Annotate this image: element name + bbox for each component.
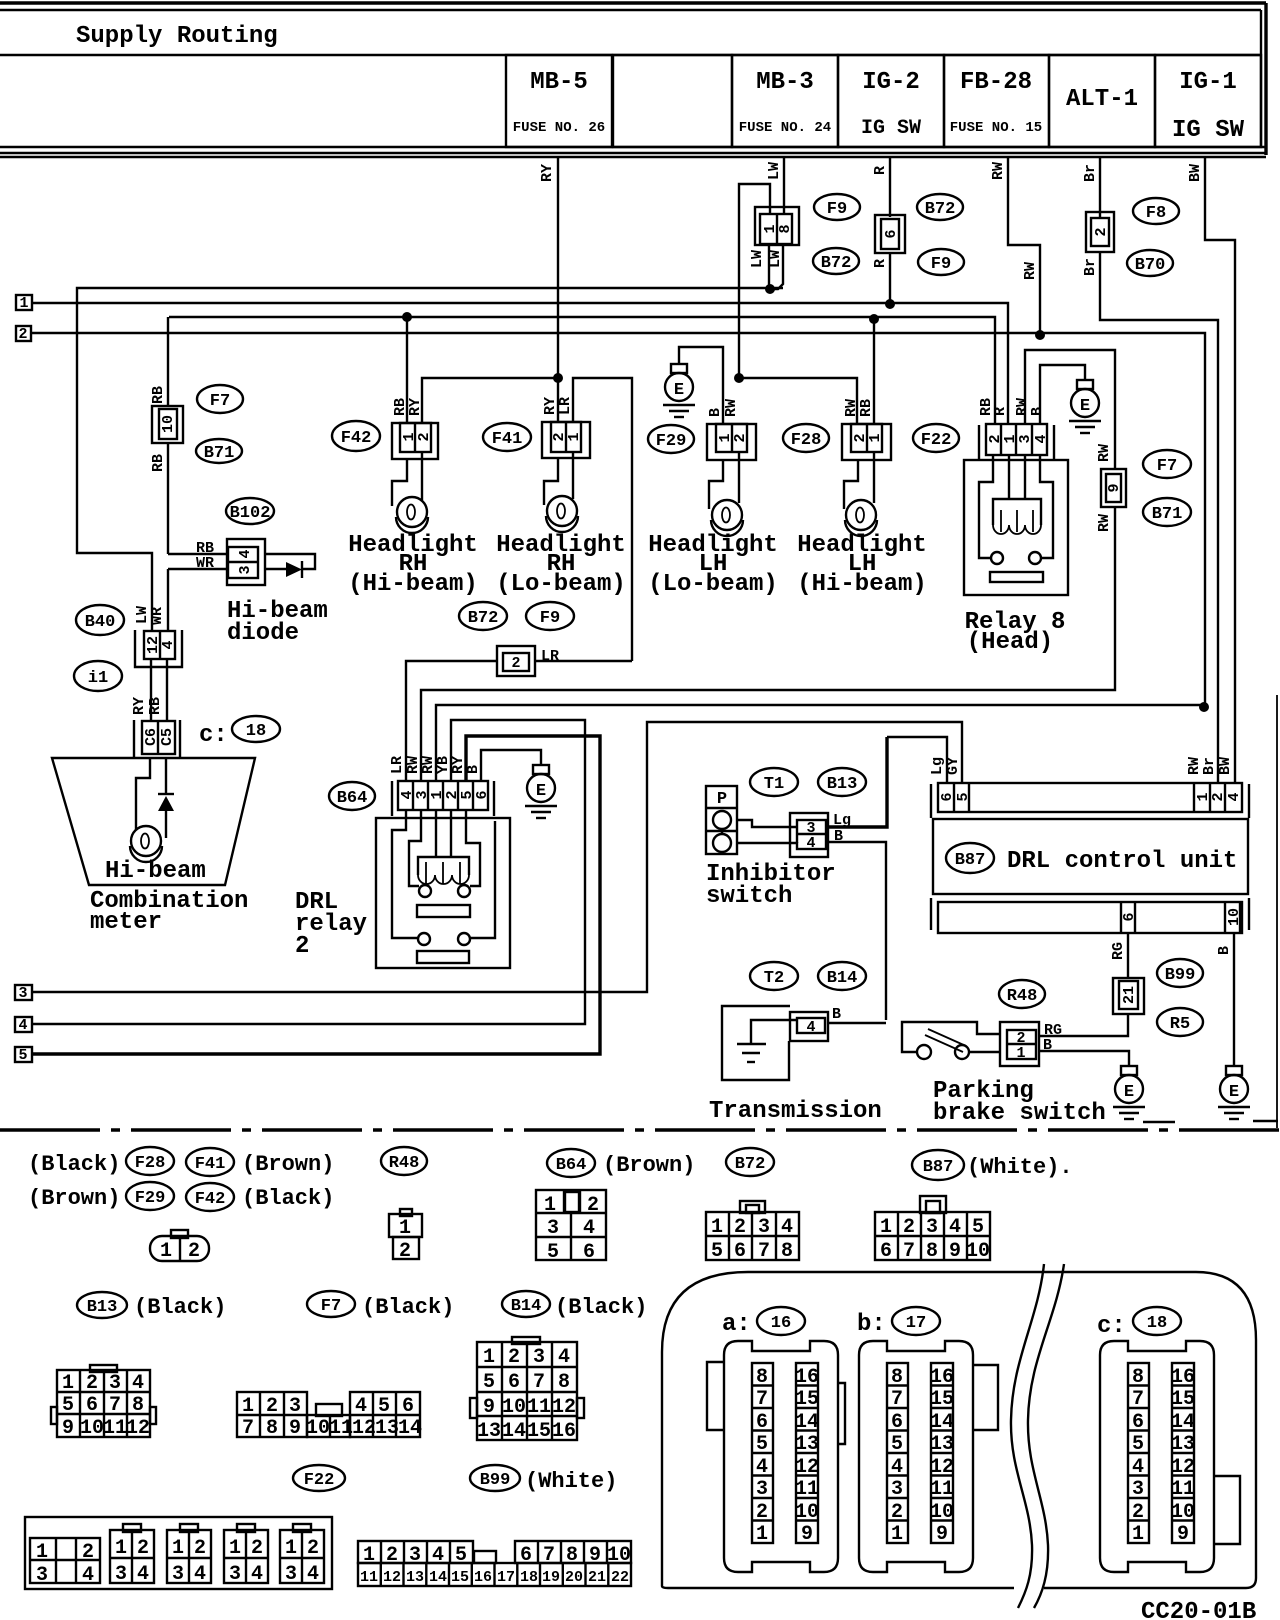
wire bus 4 : YB from DRL relay pin 2: [32, 720, 585, 1024]
diode D hi-beam: [265, 554, 315, 569]
svg-text:B: B: [465, 765, 482, 774]
wire RY to F41 pin2: [557, 378, 559, 422]
supply box IG-2: [838, 55, 944, 147]
ellipse F9 mid: [526, 602, 574, 630]
svg-text:1: 1: [229, 1537, 241, 1560]
svg-text:2: 2: [295, 933, 309, 960]
svg-text:11: 11: [103, 1417, 127, 1440]
svg-text:(White): (White): [525, 1469, 617, 1494]
wires F41 to lamp: [544, 452, 573, 505]
svg-text:4: 4: [160, 640, 177, 649]
svg-text:16: 16: [771, 1314, 791, 1333]
svg-text:12: 12: [126, 1417, 150, 1440]
drl relay internal pin1 pin2 to coil: [436, 810, 451, 857]
svg-text:22: 22: [611, 1569, 629, 1586]
svg-text:8: 8: [777, 224, 794, 233]
svg-text:1: 1: [285, 1537, 297, 1560]
svg-text:F22: F22: [921, 431, 952, 450]
ellipse F7 right: [1143, 450, 1191, 478]
svg-text:F42: F42: [341, 429, 372, 448]
svg-text:4: 4: [82, 1564, 94, 1587]
svg-text:(Black): (Black): [28, 1152, 120, 1177]
headlight LH hi lamp: [845, 500, 877, 536]
joint connector ALT-1 Br: [1086, 212, 1114, 252]
socket c pin column right: [1171, 1363, 1195, 1546]
ellipse T1: [750, 768, 798, 796]
svg-text:1: 1: [756, 1523, 768, 1546]
svg-text:11: 11: [360, 1569, 378, 1586]
ellipse B72 lower: [813, 248, 859, 274]
svg-text:1: 1: [880, 1216, 892, 1239]
socket c right bump: [1214, 1476, 1240, 1544]
svg-text:10: 10: [1226, 908, 1243, 926]
svg-text:1: 1: [115, 1537, 127, 1560]
chain separator line: [0, 1128, 1280, 1131]
junction dot F42 RB: [402, 312, 412, 322]
svg-text:meter: meter: [90, 909, 162, 936]
svg-text:5: 5: [891, 1433, 903, 1456]
wire B64 pin6 to ground: [481, 750, 541, 781]
wire RB B40 to meter: [166, 659, 168, 721]
svg-text:8: 8: [926, 1240, 938, 1263]
wire bus 2 : RW feed to DRL unit pin 1: [31, 333, 1205, 707]
supply box MB-3: [732, 55, 838, 147]
socket c pin column left: [1128, 1363, 1149, 1546]
ellipse F7: [197, 385, 243, 413]
connector F42: [392, 423, 438, 459]
wire RY B40 to meter: [150, 659, 152, 721]
page edge artifact line: [1276, 695, 1278, 1128]
svg-text:Supply Routing: Supply Routing: [76, 23, 278, 50]
svg-text:18: 18: [1147, 1314, 1167, 1333]
drl relay lower contact left: [418, 933, 430, 945]
joint connector RW 9 (F7/B71): [1101, 469, 1126, 507]
svg-text:F7: F7: [321, 1297, 341, 1316]
junction dot RW DRL unit: [1199, 702, 1209, 712]
svg-text:4: 4: [1033, 434, 1050, 443]
wire RG from DRL unit pin6: [1127, 933, 1129, 978]
junction dot LW: [765, 284, 775, 294]
ellipse B14 pinout: [502, 1291, 550, 1317]
node square 3: [15, 985, 32, 1000]
svg-text:2: 2: [508, 1346, 520, 1369]
svg-text:3: 3: [115, 1563, 127, 1586]
svg-text:F7: F7: [1157, 457, 1177, 476]
wire meter lamp left: [136, 758, 150, 830]
ellipse B64 pinout: [547, 1149, 595, 1177]
svg-text:3: 3: [229, 1563, 241, 1586]
frame right inner border: [1260, 10, 1262, 148]
combination meter trapezoid: [52, 758, 255, 885]
svg-text:CC20-01B: CC20-01B: [1141, 1599, 1256, 1620]
svg-text:1: 1: [62, 1372, 74, 1395]
junction dot RY: [553, 373, 563, 383]
drl relay internal pin3 to upper contact: [409, 810, 421, 886]
svg-text:2: 2: [511, 655, 520, 672]
svg-text:11: 11: [1171, 1478, 1195, 1501]
ellipse 17: [892, 1307, 940, 1335]
wire RW 9 down to DRL relay pin3: [421, 507, 1115, 781]
headlight RH lo lamp: [546, 496, 578, 532]
ground E parking brake: [1113, 1066, 1145, 1119]
svg-text:9: 9: [62, 1417, 74, 1440]
header bottom double line: [0, 152, 1266, 154]
svg-text:9: 9: [483, 1396, 495, 1419]
ellipse F28: [783, 424, 829, 452]
svg-text:8: 8: [1132, 1366, 1144, 1389]
svg-text:8: 8: [891, 1366, 903, 1389]
svg-text:1: 1: [399, 1217, 411, 1240]
inhibitor switch P box: [706, 786, 737, 854]
connector F41: [542, 422, 590, 458]
svg-text:2: 2: [307, 1537, 319, 1560]
ellipse B87: [946, 843, 994, 873]
svg-text:LR: LR: [557, 397, 574, 415]
supply box FB-28: [944, 55, 1049, 147]
ellipse 18: [1133, 1307, 1181, 1335]
svg-text:6: 6: [86, 1394, 98, 1417]
relay8 coil: [993, 499, 1041, 525]
svg-text:13: 13: [375, 1417, 399, 1440]
ellipse F29 pinout: [126, 1182, 174, 1210]
ellipse F28 pinout: [126, 1147, 174, 1175]
svg-text:LW: LW: [766, 162, 783, 180]
wire R below joint: [889, 253, 891, 304]
svg-text:DRL control unit: DRL control unit: [1007, 848, 1237, 875]
svg-text:R5: R5: [1170, 1015, 1190, 1034]
svg-text:11: 11: [795, 1478, 819, 1501]
svg-text:10: 10: [306, 1417, 330, 1440]
svg-text:F29: F29: [135, 1189, 166, 1208]
ellipse B71: [196, 439, 242, 463]
headlight connector 1|2 pinout: [171, 1230, 188, 1238]
svg-text:3: 3: [758, 1216, 770, 1239]
wire RB branch down through joint 10: [167, 317, 169, 554]
svg-text:3: 3: [547, 1217, 559, 1240]
connector F22 pinout outer: [25, 1517, 332, 1589]
connector transmission 4: [790, 1012, 828, 1041]
svg-text:6: 6: [508, 1371, 520, 1394]
drl relay lower contact right: [458, 933, 470, 945]
ellipse B72 mid: [459, 602, 507, 630]
svg-text:12: 12: [552, 1396, 576, 1419]
wire LR joint to DRL relay pin 4: [406, 661, 632, 781]
ellipse B99 pinout: [470, 1465, 520, 1491]
ground E DRL relay: [525, 765, 557, 818]
svg-text:B72: B72: [925, 200, 956, 219]
svg-text:1: 1: [160, 1240, 172, 1263]
svg-text:6: 6: [1132, 1411, 1144, 1434]
ellipse B71 right: [1143, 498, 1191, 526]
wire parking brake moving contact: [969, 1051, 1000, 1053]
svg-text:IG-2: IG-2: [862, 69, 920, 96]
svg-text:8: 8: [266, 1417, 278, 1440]
svg-text:b:: b:: [857, 1311, 886, 1338]
ellipse B70: [1127, 250, 1173, 276]
svg-text:R48: R48: [389, 1154, 420, 1173]
svg-text:8: 8: [558, 1371, 570, 1394]
svg-text:6: 6: [880, 1240, 892, 1263]
svg-text:R48: R48: [1007, 987, 1038, 1006]
node square 4: [15, 1017, 32, 1032]
svg-text:3: 3: [891, 1478, 903, 1501]
svg-text:13: 13: [406, 1569, 424, 1586]
svg-text:6: 6: [474, 790, 491, 799]
wire BW from IG-1 to DRL unit pin 4: [1205, 158, 1235, 783]
svg-text:F8: F8: [1146, 204, 1166, 223]
svg-text:2: 2: [18, 326, 27, 343]
svg-text:IG SW: IG SW: [1172, 117, 1245, 144]
svg-text:18: 18: [246, 722, 266, 741]
svg-text:7: 7: [903, 1240, 915, 1263]
svg-text:2: 2: [188, 1240, 200, 1263]
svg-text:LW: LW: [767, 250, 784, 268]
svg-text:1: 1: [867, 433, 884, 442]
ground E relay8: [1069, 380, 1101, 433]
svg-text:FB-28: FB-28: [960, 69, 1032, 96]
wire RY to F42 pin2: [422, 378, 558, 423]
wire RW from joint to F28 pin2: [739, 378, 857, 424]
svg-text:6: 6: [583, 1241, 595, 1264]
svg-text:1: 1: [544, 1194, 556, 1217]
svg-text:B14: B14: [511, 1297, 542, 1316]
transmission box: [722, 1006, 790, 1080]
fuse boxes bottom line: [0, 146, 1266, 148]
svg-text:14: 14: [398, 1417, 422, 1440]
junction dot RW on bus 2: [1035, 330, 1045, 340]
svg-text:2: 2: [86, 1372, 98, 1395]
svg-text:1: 1: [242, 1395, 254, 1418]
ellipse F22 pinout: [293, 1465, 345, 1491]
svg-text:WR: WR: [149, 607, 166, 625]
junction dot RW drop at F29: [734, 373, 744, 383]
relay8 contact circle right: [1029, 552, 1041, 564]
svg-text:2: 2: [416, 432, 433, 441]
svg-text:IG-1: IG-1: [1179, 69, 1237, 96]
svg-text:1: 1: [1132, 1523, 1144, 1546]
svg-text:8: 8: [132, 1394, 144, 1417]
svg-text:10: 10: [1171, 1501, 1195, 1524]
svg-text:RW: RW: [723, 399, 740, 417]
ellipse R48 pinout: [381, 1147, 427, 1175]
svg-text:5: 5: [547, 1241, 559, 1264]
svg-text:8: 8: [756, 1366, 768, 1389]
connector B87 pinout grid: [920, 1196, 946, 1213]
drl relay internal pin5 to upper contact right: [466, 810, 480, 886]
svg-text:5: 5: [18, 1047, 27, 1064]
ellipse i1: [74, 661, 122, 691]
svg-text:4: 4: [806, 835, 815, 852]
svg-text:WR: WR: [196, 555, 214, 572]
svg-text:3: 3: [237, 565, 254, 574]
supply box MB-5: [506, 55, 612, 147]
svg-text:2: 2: [1210, 792, 1227, 801]
svg-text:3: 3: [1132, 1478, 1144, 1501]
joint connector IG-2 R (B72/F9): [875, 215, 905, 253]
relay8 contact circle left: [991, 552, 1003, 564]
svg-text:12: 12: [352, 1417, 376, 1440]
ellipse R48: [999, 980, 1045, 1008]
svg-text:6: 6: [891, 1411, 903, 1434]
svg-text:R: R: [872, 259, 889, 268]
svg-text:21: 21: [588, 1569, 606, 1586]
ground E right: [1218, 1066, 1250, 1119]
wire RY from MB-5: [557, 158, 559, 377]
svg-text:2: 2: [137, 1537, 149, 1560]
svg-text:16: 16: [930, 1366, 954, 1389]
svg-text:(White).: (White).: [967, 1155, 1073, 1180]
wire RB to F28 pin1: [873, 319, 875, 424]
svg-text:11: 11: [329, 1417, 353, 1440]
svg-text:4: 4: [558, 1346, 570, 1369]
wire bus 5 : RY from DRL relay pin 5: [32, 736, 600, 1054]
svg-text:10: 10: [502, 1396, 526, 1419]
svg-text:F28: F28: [791, 431, 822, 450]
svg-text:3: 3: [756, 1478, 768, 1501]
connector F29: [707, 424, 756, 460]
svg-text:10: 10: [930, 1501, 954, 1524]
svg-text:2: 2: [194, 1537, 206, 1560]
svg-text:16: 16: [552, 1420, 576, 1443]
svg-text:17: 17: [497, 1569, 515, 1586]
ellipse F9 lower: [918, 249, 964, 275]
drl relay upper contact left: [419, 885, 431, 897]
svg-text:17: 17: [906, 1314, 926, 1333]
svg-text:Br: Br: [1082, 258, 1099, 276]
svg-text:13: 13: [477, 1420, 501, 1443]
svg-text:(Head): (Head): [967, 629, 1053, 656]
svg-text:7: 7: [891, 1388, 903, 1411]
svg-text:B40: B40: [85, 613, 116, 632]
joint connector LR 2: [497, 646, 535, 676]
wire inhibitor contact to pin4: [737, 842, 797, 843]
svg-text:RW: RW: [1096, 444, 1113, 462]
svg-text:R: R: [992, 407, 1009, 416]
svg-text:C5: C5: [159, 728, 176, 746]
wire B transmission: [828, 1022, 886, 1024]
svg-text:B72: B72: [468, 609, 499, 628]
svg-text:7: 7: [1132, 1388, 1144, 1411]
svg-text:LR: LR: [541, 648, 559, 665]
svg-text:15: 15: [1171, 1388, 1195, 1411]
svg-text:2: 2: [1132, 1501, 1144, 1524]
svg-text:10: 10: [160, 415, 177, 433]
svg-text:F42: F42: [195, 1190, 226, 1209]
wire inhibitor contact to pin3: [737, 820, 797, 827]
socket b right bump: [973, 1365, 998, 1430]
svg-text:9: 9: [289, 1417, 301, 1440]
svg-text:4: 4: [1132, 1456, 1144, 1479]
svg-text:4: 4: [1226, 792, 1243, 801]
F22 sub 5: [293, 1524, 311, 1532]
svg-text:RB: RB: [858, 399, 875, 417]
svg-text:2: 2: [756, 1501, 768, 1524]
wire RW from FB-28: [1008, 158, 1040, 335]
svg-text:F41: F41: [492, 430, 523, 449]
svg-text:14: 14: [795, 1411, 819, 1434]
svg-text:(Black): (Black): [242, 1186, 334, 1211]
svg-text:F41: F41: [195, 1155, 226, 1174]
svg-text:5: 5: [972, 1216, 984, 1239]
svg-text:4: 4: [756, 1456, 768, 1479]
connector B72 pinout grid: [740, 1201, 765, 1213]
connector R48 pinout: [400, 1209, 412, 1216]
node square 1: [16, 295, 32, 310]
svg-text:16: 16: [795, 1366, 819, 1389]
svg-text:RB: RB: [150, 386, 167, 404]
svg-text:13: 13: [795, 1433, 819, 1456]
ellipse 18: [232, 716, 280, 742]
svg-text:6: 6: [756, 1411, 768, 1434]
svg-text:IG SW: IG SW: [861, 117, 921, 140]
wave break line 1: [1011, 1264, 1044, 1608]
svg-text:(Hi-beam): (Hi-beam): [348, 571, 478, 598]
svg-text:5: 5: [378, 1395, 390, 1418]
ellipse B40: [76, 605, 124, 635]
svg-text:5: 5: [483, 1371, 495, 1394]
drl relay lower armature slot: [417, 951, 469, 963]
svg-text:19: 19: [542, 1569, 560, 1586]
wire LW pins below joint to bus: [769, 245, 783, 289]
ellipse F8: [1133, 198, 1179, 224]
svg-text:1: 1: [1016, 1045, 1025, 1062]
svg-text:T2: T2: [764, 969, 784, 988]
svg-text:C6: C6: [143, 728, 160, 746]
svg-text:2: 2: [732, 433, 749, 442]
svg-text:MB-5: MB-5: [530, 69, 588, 96]
wire B parking brake to ground: [1039, 1051, 1129, 1066]
svg-text:Lg: Lg: [929, 757, 946, 775]
svg-text:F9: F9: [827, 200, 847, 219]
ellipse F41: [483, 423, 531, 451]
svg-text:LR: LR: [389, 756, 406, 774]
svg-text:7: 7: [533, 1371, 545, 1394]
ellipse F9: [814, 194, 860, 220]
drl relay lower contact right link: [470, 821, 495, 938]
svg-text:2: 2: [399, 1240, 411, 1263]
svg-text:12: 12: [383, 1569, 401, 1586]
svg-text:(Black): (Black): [555, 1295, 647, 1320]
F22 sub 1: [30, 1538, 100, 1583]
connector B40 12/4: [135, 630, 182, 667]
parking brake switch lever: [917, 1045, 931, 1059]
svg-text:2: 2: [891, 1501, 903, 1524]
svg-text:1: 1: [483, 1346, 495, 1369]
svg-text:B71: B71: [204, 444, 235, 463]
svg-text:2: 2: [1093, 227, 1110, 236]
svg-text:16: 16: [1171, 1366, 1195, 1389]
wire bus 1 : R feed to relay8 pin 1: [32, 303, 1008, 424]
wires F42 to lamp: [392, 452, 422, 506]
junction dot R on bus 1: [885, 299, 895, 309]
svg-text:5: 5: [62, 1394, 74, 1417]
ellipse B87 pinout: [912, 1150, 964, 1180]
svg-text:B: B: [1029, 407, 1046, 416]
svg-text:4: 4: [251, 1563, 263, 1586]
svg-text:B13: B13: [87, 1298, 118, 1317]
svg-text:12: 12: [795, 1456, 819, 1479]
svg-text:6: 6: [939, 792, 956, 801]
F22 sub 3: [180, 1524, 198, 1532]
hi-beam indicator lamp: [130, 826, 162, 862]
svg-text:1: 1: [172, 1537, 184, 1560]
svg-text:1: 1: [19, 295, 28, 312]
connector B13 pinout grid: [90, 1365, 117, 1372]
svg-text:B72: B72: [735, 1155, 766, 1174]
svg-text:FUSE NO. 26: FUSE NO. 26: [513, 120, 605, 136]
supply box empty: [613, 55, 732, 147]
svg-text:(Black): (Black): [134, 1295, 226, 1320]
